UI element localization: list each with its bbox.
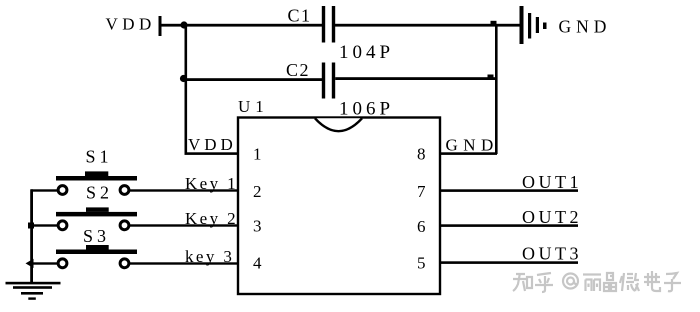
svg-text:2: 2 <box>253 182 262 201</box>
晶 <box>604 273 616 291</box>
svg-text:OUT2: OUT2 <box>522 207 582 227</box>
wire left VDD rail (vertical) <box>185 24 188 154</box>
switch S2 <box>56 207 137 229</box>
svg-text:S1: S1 <box>86 147 113 167</box>
wire switch ground rail (vertical) <box>30 189 33 282</box>
wire OUT3 pin 5 <box>441 261 578 264</box>
乎 <box>535 273 553 292</box>
wire C2 right plate to right rail <box>335 77 497 80</box>
junction tick at right rail / C2 row <box>488 75 494 80</box>
junction dot at left rail top <box>180 21 187 28</box>
wire S1 left terminal to rail <box>31 189 58 191</box>
wire OUT1 pin 7 <box>441 189 578 192</box>
wire Key1 pin 2 <box>129 189 238 191</box>
wire OUT2 pin 6 <box>441 224 578 227</box>
svg-text:OUT3: OUT3 <box>522 244 582 264</box>
chip notch (top arc) <box>315 118 362 131</box>
svg-text:VDD: VDD <box>106 15 156 34</box>
svg-text:U1: U1 <box>238 97 269 116</box>
wire C1 right plate to GND symbol <box>335 24 521 27</box>
知 <box>513 273 528 291</box>
svg-text:1: 1 <box>253 145 262 164</box>
svg-text:C2: C2 <box>286 60 310 80</box>
junction dot at left rail / C2 row <box>180 75 187 82</box>
wire C2 row left segment <box>186 78 322 81</box>
丽 <box>583 275 601 292</box>
svg-text:C1: C1 <box>288 6 312 26</box>
svg-text:Key 2: Key 2 <box>185 209 238 228</box>
svg-text:104P: 104P <box>339 42 394 63</box>
svg-text:VDD: VDD <box>188 135 237 154</box>
微 <box>620 273 639 291</box>
wire GND pin 8 <box>439 152 497 155</box>
svg-text:4: 4 <box>253 254 262 273</box>
junction tick at rail / S2 row <box>28 223 34 229</box>
svg-text:GND: GND <box>559 17 612 37</box>
capacitor C2 <box>322 63 335 99</box>
svg-text:OUT1: OUT1 <box>522 172 582 192</box>
svg-text:S2: S2 <box>86 183 113 203</box>
wire S2 left terminal to rail <box>31 224 58 226</box>
svg-text:7: 7 <box>417 182 426 201</box>
switch S3 <box>56 245 137 268</box>
switch S1 <box>56 171 137 194</box>
svg-text:key 3: key 3 <box>185 247 234 266</box>
watermark 知乎 @丽晶微电子 (drawn glyphs, gray) <box>513 271 681 292</box>
svg-text:GND: GND <box>446 136 499 155</box>
子 <box>664 273 681 291</box>
ground (earth) symbol bottom-left <box>6 282 61 300</box>
op-amp U1 chip body <box>238 118 440 295</box>
wire Key2 pin 3 <box>129 224 238 226</box>
@ <box>563 274 578 289</box>
junction tick at right rail top <box>491 21 497 26</box>
wire right GND rail (vertical) <box>495 24 498 154</box>
wire VDD terminal to C1 left plate <box>161 24 322 27</box>
wire S3 left terminal to rail <box>31 262 58 264</box>
ground GND symbol (top-right, signal ground bars) <box>520 6 547 44</box>
wire key3 pin 4 <box>129 262 238 264</box>
node VDD terminal <box>159 16 162 36</box>
capacitor C1 <box>322 6 335 43</box>
电 <box>644 271 660 291</box>
svg-text:3: 3 <box>253 217 262 236</box>
wire VDD pin 1 <box>185 152 239 155</box>
svg-text:5: 5 <box>417 254 426 273</box>
junction tick at rail / S3 row <box>26 259 34 268</box>
svg-text:6: 6 <box>417 217 426 236</box>
svg-text:S3: S3 <box>83 226 110 246</box>
svg-text:Key 1: Key 1 <box>185 174 238 193</box>
svg-text:8: 8 <box>417 145 426 164</box>
